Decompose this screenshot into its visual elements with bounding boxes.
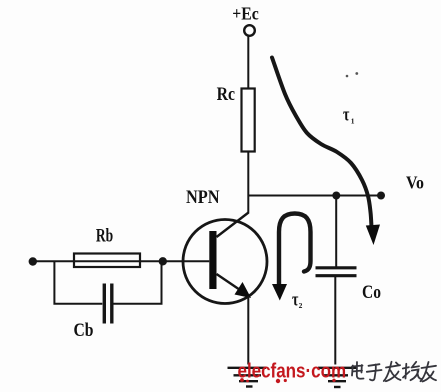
curve tau2 (charge path arrow) — [279, 214, 311, 287]
wire: Rc to collector node — [247, 152, 249, 214]
svg-text:Rc: Rc — [217, 84, 235, 105]
wire: Cb branch left drop — [54, 261, 102, 304]
capacitor Cb left plate — [103, 284, 106, 324]
char shao — [403, 362, 421, 380]
capacitor Co bottom plate — [316, 274, 357, 277]
transistor Q1 (NPN) body — [183, 220, 267, 304]
char zi — [367, 364, 382, 380]
transistor Q1 emitter arrowhead — [235, 282, 252, 298]
transistor Q1 emitter stroke — [217, 274, 247, 294]
char you — [421, 362, 437, 382]
power terminal +Ec — [244, 25, 255, 36]
node: input terminal — [29, 257, 37, 265]
resistor Rb — [74, 254, 140, 268]
svg-text:elecfans·com: elecfans·com — [238, 359, 347, 382]
transistor Q1 collector stroke — [217, 213, 249, 238]
watermark: chinese characters — [352, 362, 436, 382]
wire: terminal to Rc — [247, 36, 249, 88]
svg-text:τ: τ — [292, 290, 299, 311]
node: base-side junction — [159, 257, 167, 265]
capacitor Co top plate — [316, 266, 357, 269]
wire: Co to ground — [334, 277, 336, 365]
svg-text:Co: Co — [362, 282, 381, 303]
char fa — [384, 362, 401, 381]
svg-text:NPN: NPN — [186, 188, 220, 208]
ground (Co) — [318, 368, 356, 387]
svg-text:+Ec: +Ec — [232, 4, 258, 24]
watermark: elecfans.com — [238, 359, 347, 382]
curve tau1 (discharge path arrow) — [272, 58, 372, 228]
svg-text:Rb: Rb — [96, 226, 113, 247]
svg-text:1: 1 — [351, 117, 355, 126]
wire: rail to Co — [335, 196, 337, 267]
capacitor Cb right plate — [110, 284, 113, 324]
svg-text:τ: τ — [343, 105, 350, 126]
wire: Cb branch right rise — [114, 261, 162, 304]
char dian — [352, 362, 364, 379]
resistor Rc — [242, 89, 255, 152]
wire: input to base — [33, 260, 209, 262]
transistor Q1 base bar — [209, 231, 216, 289]
svg-text:Cb: Cb — [74, 320, 94, 341]
watermark drips — [240, 378, 336, 383]
wire: output rail to Vo — [248, 195, 381, 197]
node: Vo output terminal — [377, 192, 385, 200]
svg-text:2: 2 — [299, 301, 303, 310]
speck dots — [346, 75, 349, 78]
node: Co tap junction — [332, 192, 340, 200]
svg-text:Vo: Vo — [406, 172, 424, 192]
ground (emitter) — [228, 368, 267, 387]
wire: emitter down to ground — [247, 296, 249, 365]
